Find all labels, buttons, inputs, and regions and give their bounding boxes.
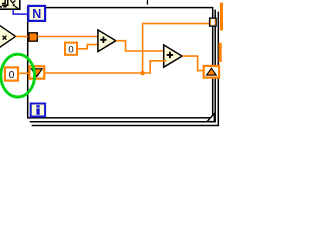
svg-text:0: 0 (68, 44, 73, 55)
for-loop main border (28, 8, 213, 118)
orange element cut at right edge (middle) (219, 43, 222, 62)
indexing tunnel [] (210, 18, 217, 26)
right shift register terminal (204, 66, 219, 78)
wire constant to left shift register (18, 72, 29, 74)
svg-text:N: N (32, 7, 41, 21)
wire left SR to add2 bottom input (44, 61, 166, 73)
for-loop frame 3 (back stacked frame) (32, 12, 219, 126)
page-fold corner (207, 114, 214, 122)
iteration terminal i (31, 104, 45, 117)
wire add2 output to right shift register (182, 56, 204, 71)
multiply function (cut off at left edge) (0, 25, 16, 48)
left shift register terminal (29, 66, 44, 78)
wire junction branch up to indexing tunnel (143, 24, 210, 73)
junction dot (140, 71, 145, 76)
loop count terminal N (28, 6, 45, 21)
wire add1 output to add2 top input (116, 41, 166, 51)
green highlight ellipse (1, 54, 35, 97)
for-loop frame 2 (middle stacked frame) (30, 10, 216, 122)
blue wire from icon to N terminal (13, 10, 28, 14)
add function U1 (98, 30, 116, 52)
numeric constant 0 (outside, initializer) (5, 67, 18, 81)
wire constant 0 to add1 bottom input (77, 45, 101, 49)
wire multiply to input tunnel (15, 36, 29, 38)
orange element cut at right edge (top) (220, 3, 223, 31)
numeric constant 0 (inside loop) (65, 43, 77, 56)
add function U2 (164, 45, 182, 67)
input tunnel (solid) (29, 33, 37, 41)
sub-VI icon (cut off, top-left) (0, 0, 20, 9)
wire tunnel to add1 top input (37, 36, 100, 38)
svg-text:0: 0 (9, 70, 15, 81)
black tick cut at top edge (147, 0, 148, 5)
